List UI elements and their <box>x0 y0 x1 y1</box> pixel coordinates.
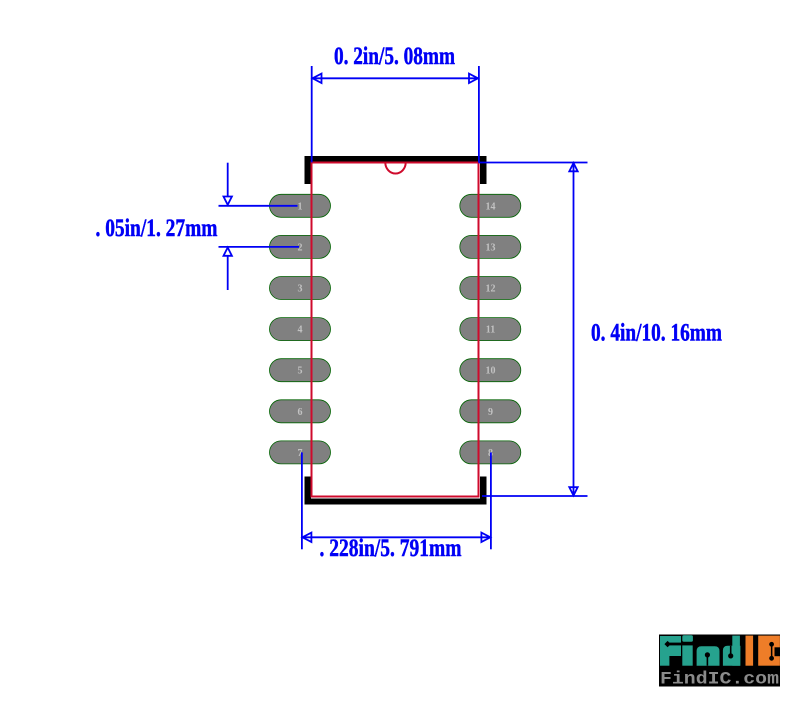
pad 7 <box>270 441 331 464</box>
pad 1 <box>270 194 331 217</box>
FindIC logo letter d <box>723 636 741 666</box>
FindIC logo letter i <box>682 635 693 666</box>
svg-text:4: 4 <box>298 325 303 336</box>
pad 8 <box>460 441 521 464</box>
top dimension arrow left <box>313 74 322 83</box>
IC body outline black bottom bar <box>305 499 487 505</box>
svg-text:FindIC.com: FindIC.com <box>660 669 779 689</box>
bottom dimension arrow right <box>481 533 490 542</box>
left dimension upper arrow (down) <box>224 197 232 205</box>
IC body outline black bottom-left stub <box>305 477 312 505</box>
svg-text:10: 10 <box>486 366 496 377</box>
pad 10 <box>460 359 521 382</box>
FindIC logo letter n <box>697 646 720 666</box>
bottom dimension extension line left <box>301 452 303 549</box>
FindIC logo black box <box>659 635 780 687</box>
top dimension arrow right <box>469 74 478 83</box>
svg-text:5: 5 <box>298 366 303 377</box>
IC body outline black bottom-right stub <box>480 477 487 505</box>
right dimension arrow down <box>569 487 577 495</box>
IC body outline black top bar <box>305 156 487 162</box>
left dimension lower arrow (up) <box>224 248 232 256</box>
svg-text:. 228in/5. 791mm: . 228in/5. 791mm <box>320 533 462 562</box>
FindIC logo letter F <box>660 636 681 666</box>
svg-text:9: 9 <box>488 407 493 418</box>
svg-text:14: 14 <box>486 201 496 212</box>
pad 6 <box>270 400 331 423</box>
pad 3 <box>270 277 331 300</box>
pad 9 <box>460 400 521 423</box>
svg-text:. 05in/1. 27mm: . 05in/1. 27mm <box>96 213 218 242</box>
svg-text:0. 4in/10. 16mm: 0. 4in/10. 16mm <box>591 318 722 347</box>
pad 5 <box>270 359 331 382</box>
svg-text:2: 2 <box>298 242 303 253</box>
top dimension line <box>312 77 479 79</box>
svg-text:13: 13 <box>486 242 496 253</box>
svg-text:6: 6 <box>298 407 303 418</box>
pad 14 <box>460 194 521 217</box>
left dimension upper vertical line <box>227 163 229 197</box>
svg-text:3: 3 <box>298 284 303 295</box>
pad 11 <box>460 318 521 341</box>
right dimension arrow up <box>569 163 577 171</box>
leader line pin 1 <box>219 205 298 207</box>
IC body outline black top-right stub <box>480 156 487 184</box>
svg-text:11: 11 <box>486 325 495 336</box>
right dimension line <box>573 163 575 497</box>
IC body courtyard red rectangle <box>312 163 479 497</box>
top dimension extension line right <box>478 66 480 162</box>
FindIC logo letter C <box>758 636 780 666</box>
svg-text:12: 12 <box>486 284 496 295</box>
right dimension extension line top <box>479 162 588 164</box>
svg-text:0. 2in/5. 08mm: 0. 2in/5. 08mm <box>334 41 455 70</box>
IC body outline black top-left stub <box>305 156 312 184</box>
pad 2 <box>270 235 331 258</box>
bottom dimension line <box>302 536 491 538</box>
svg-text:1: 1 <box>298 201 303 212</box>
pad 12 <box>460 277 521 300</box>
bottom dimension arrow left <box>302 533 311 542</box>
pin 1 indicator notch <box>385 163 405 174</box>
pad 4 <box>270 318 331 341</box>
bottom dimension extension line right <box>490 452 492 549</box>
FindIC logo letter I <box>746 636 754 666</box>
pad 13 <box>460 235 521 258</box>
leader line pin 2 <box>219 246 300 248</box>
left dimension lower vertical line <box>227 256 229 290</box>
right dimension extension line bottom <box>482 495 588 497</box>
top dimension extension line left <box>311 66 313 162</box>
